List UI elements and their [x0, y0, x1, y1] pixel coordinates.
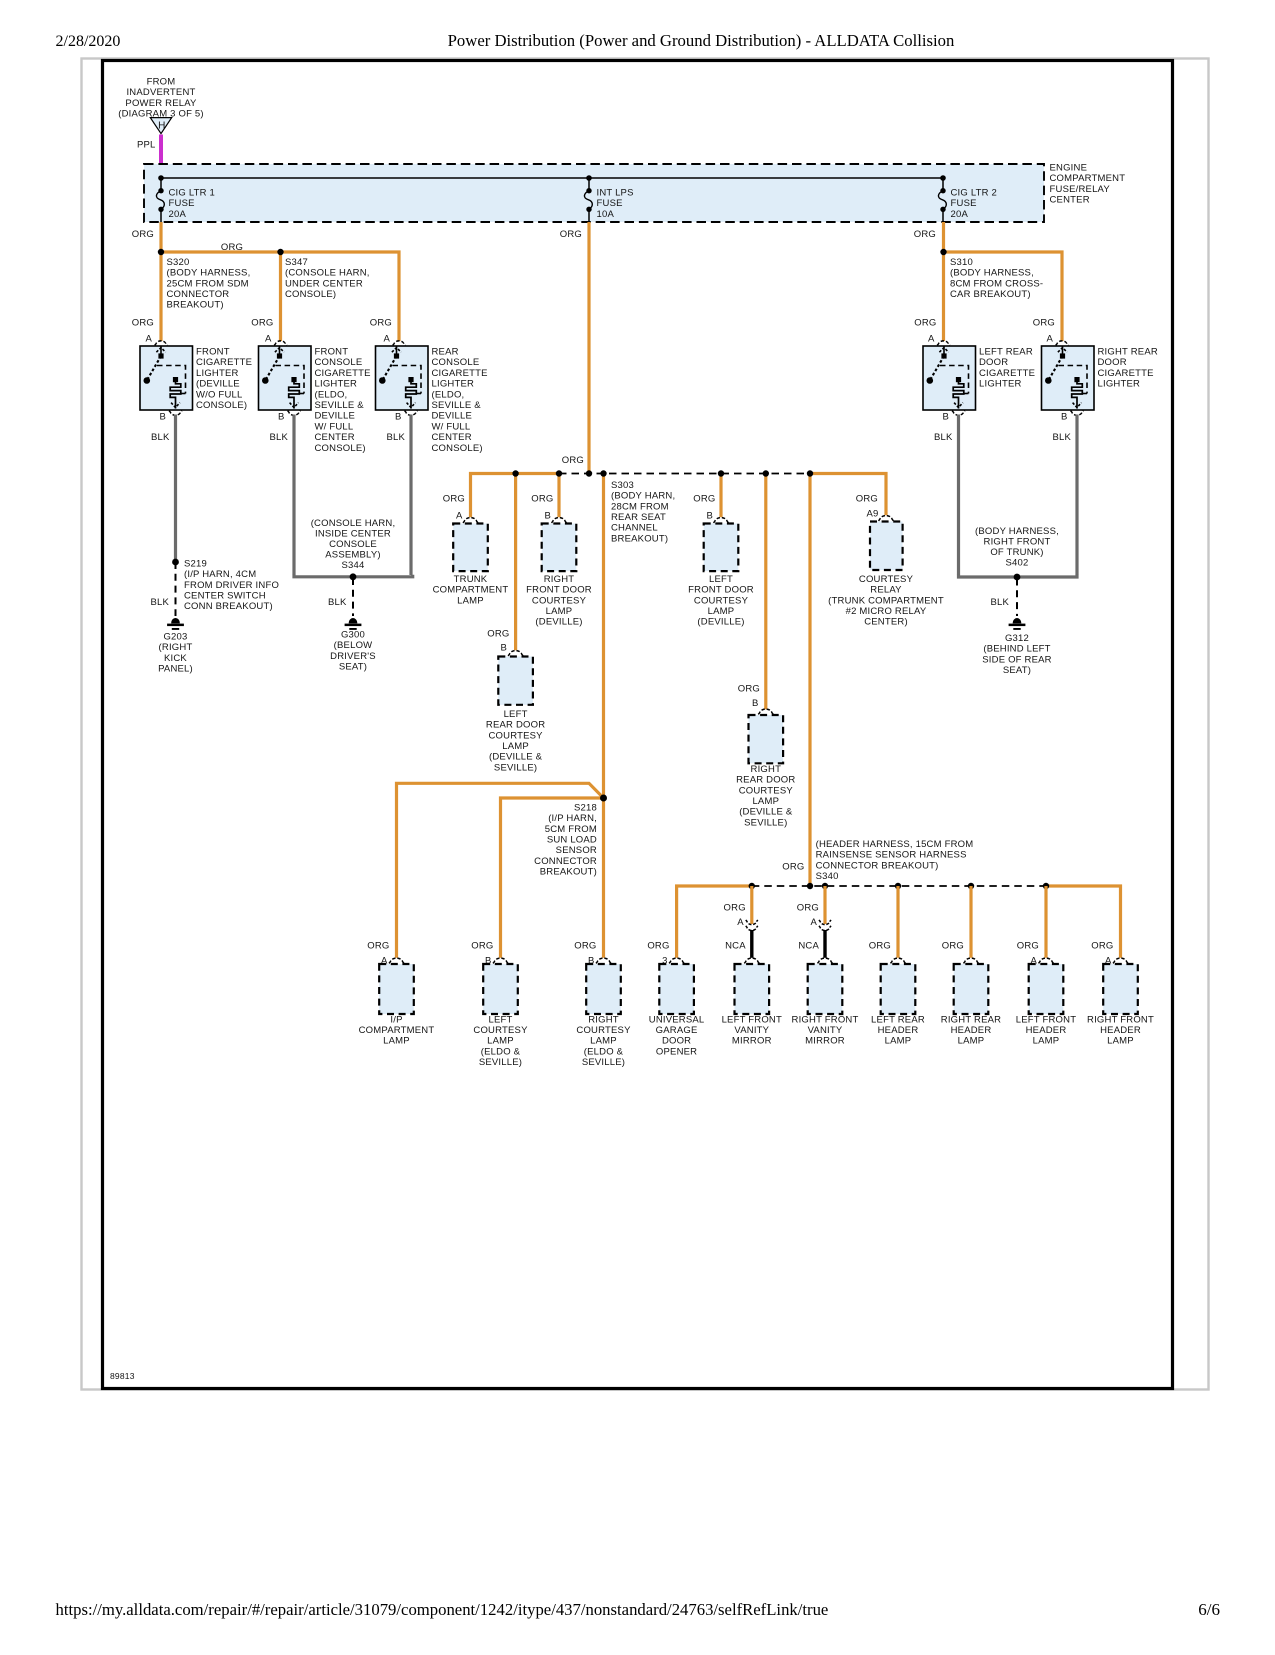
svg-text:(DEVILLE: (DEVILLE [196, 379, 240, 390]
fuse INT LPS FUSE 10A [588, 178, 590, 190]
svg-text:CENTER: CENTER [432, 432, 472, 443]
svg-text:PANEL): PANEL) [158, 663, 193, 674]
wire ORG drop to left front header lamp [1044, 886, 1047, 958]
svg-text:ENGINE: ENGINE [1050, 163, 1088, 174]
connector at pin A of front cigarette lighter [155, 341, 168, 346]
svg-text:FRONT DOOR: FRONT DOOR [526, 585, 592, 596]
svg-text:I/P: I/P [390, 1014, 402, 1025]
component rear console cigarette lighter U3 [376, 346, 429, 410]
svg-text:SIDE OF REAR: SIDE OF REAR [982, 654, 1051, 665]
svg-text:DEVILLE: DEVILLE [315, 411, 355, 422]
svg-text:(CONSOLE HARN,: (CONSOLE HARN, [311, 518, 396, 529]
svg-text:(BODY HARNESS,: (BODY HARNESS, [950, 268, 1034, 279]
svg-text:B: B [278, 411, 285, 422]
wire BLK from front cigarette lighter [174, 415, 177, 563]
svg-text:BLK: BLK [150, 597, 169, 608]
ground G203 [167, 618, 184, 630]
svg-text:FROM DRIVER INFO: FROM DRIVER INFO [184, 580, 279, 591]
svg-text:RIGHT: RIGHT [751, 764, 782, 775]
connector at pin B of rear console cigarette lighter [405, 411, 418, 416]
svg-text:LEFT REAR: LEFT REAR [871, 1014, 925, 1025]
svg-text:SEAT): SEAT) [339, 661, 367, 672]
svg-text:FUSE: FUSE [169, 198, 195, 209]
svg-text:LAMP: LAMP [383, 1036, 410, 1047]
svg-text:COURTESY: COURTESY [694, 595, 749, 606]
svg-text:ORG: ORG [1033, 318, 1055, 329]
svg-text:BLK: BLK [386, 432, 405, 443]
svg-text:(BODY HARN,: (BODY HARN, [611, 491, 675, 502]
svg-text:ORG: ORG [443, 494, 465, 505]
svg-text:28CM FROM: 28CM FROM [611, 501, 669, 512]
svg-text:ORG: ORG [724, 903, 746, 914]
svg-text:CONSOLE: CONSOLE [432, 357, 480, 368]
svg-text:ORG: ORG [471, 940, 493, 951]
svg-text:(ELDO &: (ELDO & [584, 1046, 624, 1057]
connector at right rear door courtesy lamp [758, 709, 773, 714]
connector at left front vanity mirror [744, 958, 759, 963]
svg-text:(HEADER HARNESS, 15CM FROM: (HEADER HARNESS, 15CM FROM [816, 839, 974, 850]
svg-text:VANITY: VANITY [734, 1025, 769, 1036]
svg-text:BLK: BLK [151, 432, 170, 443]
svg-text:SEAT): SEAT) [1003, 665, 1031, 676]
wire BLK from rear console cigarette lighter [409, 415, 412, 576]
svg-text:(I/P HARN, 4CM: (I/P HARN, 4CM [184, 569, 256, 580]
lamp right front door courtesy lamp [542, 524, 577, 572]
svg-text:(RIGHT: (RIGHT [159, 642, 193, 653]
svg-text:CIGARETTE: CIGARETTE [979, 368, 1035, 379]
connector at pin B of front cigarette lighter [169, 411, 182, 416]
wire BLK dashed to G300 [352, 578, 354, 616]
wire ORG drop to left front door courtesy lamp [719, 474, 722, 518]
wire ORG drop to S340 header bus [808, 474, 811, 887]
svg-text:FRONT DOOR: FRONT DOOR [688, 585, 754, 596]
lamp right rear door courtesy lamp [749, 715, 784, 763]
svg-text:HEADER: HEADER [878, 1025, 919, 1036]
splice S347 [277, 249, 283, 255]
svg-text:(TRUNK COMPARTMENT: (TRUNK COMPARTMENT [828, 595, 944, 606]
wire BLK from left rear door cigarette lighter [957, 415, 960, 576]
box left front header lamp [1029, 964, 1064, 1014]
box left rear header lamp [881, 964, 916, 1014]
svg-text:89813: 89813 [110, 1371, 135, 1381]
svg-text:ORG: ORG [869, 940, 891, 951]
svg-text:LEFT REAR: LEFT REAR [979, 347, 1033, 358]
wire NCA to left front vanity mirror [750, 930, 753, 958]
svg-text:RIGHT REAR: RIGHT REAR [941, 1014, 1001, 1025]
connector at pin A of rear console cigarette lighter [393, 341, 406, 346]
svg-text:DOOR: DOOR [979, 357, 1008, 368]
svg-text:CAR BREAKOUT): CAR BREAKOUT) [950, 289, 1031, 300]
svg-text:LIGHTER: LIGHTER [315, 379, 358, 390]
box universal garage door opener [659, 964, 694, 1014]
svg-text:CONNECTOR: CONNECTOR [167, 289, 230, 300]
svg-text:BLK: BLK [269, 432, 288, 443]
svg-text:HEADER: HEADER [1100, 1025, 1141, 1036]
svg-text:LAMP: LAMP [590, 1036, 617, 1047]
svg-text:KICK: KICK [164, 653, 187, 664]
svg-text:MIRROR: MIRROR [805, 1036, 845, 1047]
wire ORG S303 bus left segment [471, 474, 560, 518]
svg-text:(ELDO,: (ELDO, [432, 389, 465, 400]
svg-text:S310: S310 [950, 257, 973, 268]
svg-text:W/ FULL: W/ FULL [432, 421, 471, 432]
wire ORG drop to right front vanity mirror [823, 886, 826, 924]
svg-text:W/O FULL: W/O FULL [196, 389, 242, 400]
svg-text:A: A [1046, 333, 1053, 344]
svg-text:B: B [395, 411, 402, 422]
svg-text:GARAGE: GARAGE [656, 1025, 698, 1036]
svg-text:DRIVER'S: DRIVER'S [330, 651, 376, 662]
svg-text:UNIVERSAL: UNIVERSAL [649, 1014, 705, 1025]
svg-text:CIG LTR 1: CIG LTR 1 [169, 188, 216, 199]
svg-text:(BODY HARNESS,: (BODY HARNESS, [167, 268, 251, 279]
svg-text:LAMP: LAMP [1107, 1036, 1134, 1047]
svg-text:G312: G312 [1005, 633, 1029, 644]
svg-text:INSIDE CENTER: INSIDE CENTER [315, 529, 391, 540]
svg-text:(ELDO,: (ELDO, [315, 389, 348, 400]
svg-text:ORG: ORG [782, 862, 804, 873]
svg-text:CONSOLE): CONSOLE) [285, 289, 336, 300]
svg-text:FRONT: FRONT [196, 347, 230, 358]
svg-text:FROM: FROM [147, 77, 176, 88]
svg-text:FUSE: FUSE [951, 198, 977, 209]
svg-text:BLK: BLK [328, 597, 347, 608]
svg-text:CONSOLE): CONSOLE) [196, 400, 247, 411]
svg-text:SEVILLE &: SEVILLE & [432, 400, 482, 411]
svg-text:LAMP: LAMP [457, 595, 484, 606]
svg-text:S402: S402 [1006, 558, 1029, 569]
svg-text:ORG: ORG [738, 684, 760, 695]
svg-text:ORG: ORG [251, 318, 273, 329]
svg-text:S219: S219 [184, 559, 207, 570]
component right rear door cigarette lighter U5 [1042, 346, 1095, 410]
connector at trunk compartment lamp [463, 518, 478, 523]
svg-text:A: A [928, 333, 935, 344]
svg-text:LAMP: LAMP [708, 606, 735, 617]
svg-text:(CONSOLE HARN,: (CONSOLE HARN, [285, 268, 370, 279]
connector at pin A of right rear door cigarette lighter [1056, 341, 1069, 346]
in-line connector at right front vanity mirror [819, 920, 831, 925]
wire ORG from CIG LTR 1 fuse to front lighter [159, 222, 162, 341]
svg-text:G203: G203 [163, 632, 187, 643]
svg-text:MIRROR: MIRROR [732, 1036, 772, 1047]
box left front vanity mirror [735, 964, 770, 1014]
svg-text:Power Distribution (Power and: Power Distribution (Power and Ground Dis… [448, 31, 955, 50]
svg-text:ORG: ORG [487, 629, 509, 640]
wire BLK join for S344 [294, 575, 413, 577]
svg-text:CONN BREAKOUT): CONN BREAKOUT) [184, 601, 273, 612]
splice S320 [158, 249, 164, 255]
svg-text:W/ FULL: W/ FULL [315, 421, 354, 432]
svg-text:(I/P HARN,: (I/P HARN, [548, 813, 597, 824]
svg-text:20A: 20A [951, 209, 969, 220]
svg-text:RELAY: RELAY [870, 585, 902, 596]
svg-text:LAMP: LAMP [885, 1036, 912, 1047]
svg-text:LAMP: LAMP [487, 1036, 514, 1047]
svg-text:ORG: ORG [942, 940, 964, 951]
connector at pin A of left rear door cigarette lighter [937, 341, 950, 346]
lamp trunk compartment lamp [453, 524, 488, 572]
svg-text:CHANNEL: CHANNEL [611, 523, 658, 534]
internal feed bus wire [161, 177, 943, 179]
svg-text:COMPARTMENT: COMPARTMENT [359, 1025, 435, 1036]
svg-text:PPL: PPL [137, 140, 156, 151]
wire dashed S340 header harness [752, 885, 1046, 887]
svg-text:RIGHT: RIGHT [588, 1014, 619, 1025]
connector at universal garage door opener [669, 958, 684, 963]
svg-text:REAR DOOR: REAR DOOR [486, 720, 545, 731]
svg-text:COURTESY: COURTESY [576, 1025, 631, 1036]
svg-text:DOOR: DOOR [1098, 357, 1127, 368]
svg-text:S320: S320 [167, 257, 190, 268]
box right front header lamp [1103, 964, 1138, 1014]
svg-text:S347: S347 [285, 257, 308, 268]
svg-text:LAMP: LAMP [546, 606, 573, 617]
connector at right front door courtesy lamp [552, 518, 567, 523]
svg-text:BREAKOUT): BREAKOUT) [540, 866, 597, 877]
svg-text:COURTESY: COURTESY [532, 595, 587, 606]
connector at left front header lamp [1039, 958, 1054, 963]
svg-text:CIG LTR 2: CIG LTR 2 [951, 188, 998, 199]
svg-text:TRUNK: TRUNK [454, 574, 488, 585]
junction node at CIG LTR 1 fuse [158, 175, 164, 181]
svg-text:LAMP: LAMP [502, 741, 529, 752]
svg-text:A: A [737, 917, 744, 928]
svg-text:ORG: ORG [914, 318, 936, 329]
connector at pin B of left rear door cigarette lighter [952, 411, 965, 416]
wire BLK from right rear door cigarette lighter [1075, 415, 1078, 576]
svg-text:POWER RELAY: POWER RELAY [125, 98, 197, 109]
connector at right front header lamp [1113, 958, 1128, 963]
wire ORG S218 branch to left courtesy lamp [501, 798, 604, 958]
svg-text:ORG: ORG [367, 940, 389, 951]
svg-text:ORG: ORG [574, 940, 596, 951]
svg-text:OPENER: OPENER [656, 1046, 697, 1057]
box i/p compartment lamp [379, 964, 414, 1014]
fuse CIG LTR 1 FUSE 20A [160, 178, 162, 190]
svg-text:2/28/2020: 2/28/2020 [56, 33, 121, 50]
svg-text:BLK: BLK [934, 432, 953, 443]
engine compartment fuse/relay center box [144, 164, 1044, 222]
in-line connector at left front vanity mirror [746, 920, 758, 925]
svg-text:ORG: ORG [560, 229, 582, 240]
svg-text:CONNECTOR BREAKOUT): CONNECTOR BREAKOUT) [816, 860, 939, 871]
connector at left rear door courtesy lamp [508, 651, 523, 656]
connector at left front door courtesy lamp [714, 518, 729, 523]
svg-text:LEFT: LEFT [504, 709, 528, 720]
svg-text:CIGARETTE: CIGARETTE [196, 357, 252, 368]
ground G312 [1009, 618, 1026, 630]
svg-text:A: A [265, 333, 272, 344]
svg-text:ORG: ORG [914, 229, 936, 240]
svg-text:S340: S340 [816, 871, 839, 882]
svg-text:INADVERTENT: INADVERTENT [126, 87, 195, 98]
svg-text:A: A [456, 510, 463, 521]
svg-text:8CM FROM CROSS-: 8CM FROM CROSS- [950, 278, 1043, 289]
svg-text:LAMP: LAMP [958, 1036, 985, 1047]
svg-text:RIGHT FRONT: RIGHT FRONT [984, 537, 1051, 548]
wire ORG drop to left rear header lamp [896, 886, 899, 958]
wire ORG drop to left rear door courtesy lamp [514, 474, 517, 651]
connector at pin A of front console cigarette lighter [274, 341, 287, 346]
svg-text:CENTER: CENTER [315, 432, 355, 443]
wire ORG drop to left front vanity mirror [750, 886, 753, 924]
svg-text:RIGHT FRONT: RIGHT FRONT [1087, 1014, 1154, 1025]
svg-text:CIGARETTE: CIGARETTE [432, 368, 488, 379]
svg-text:RAINSENSE SENSOR HARNESS: RAINSENSE SENSOR HARNESS [816, 850, 967, 861]
svg-text:ORG: ORG [132, 229, 154, 240]
svg-text:RIGHT FRONT: RIGHT FRONT [792, 1014, 859, 1025]
svg-text:G300: G300 [341, 630, 365, 641]
svg-text:COMPARTMENT: COMPARTMENT [1050, 173, 1126, 184]
svg-text:REAR SEAT: REAR SEAT [611, 512, 666, 523]
svg-text:LIGHTER: LIGHTER [432, 379, 475, 390]
wire ORG drop to right rear door courtesy lamp [764, 474, 767, 710]
svg-text:NCA: NCA [725, 940, 746, 951]
svg-text:ORG: ORG [856, 494, 878, 505]
svg-text:B: B [706, 510, 713, 521]
svg-text:RIGHT REAR: RIGHT REAR [1098, 347, 1158, 358]
svg-text:ORG: ORG [797, 903, 819, 914]
svg-text:A: A [810, 917, 817, 928]
svg-text:ASSEMBLY): ASSEMBLY) [325, 550, 380, 561]
svg-text:(DEVILLE): (DEVILLE) [697, 617, 744, 628]
svg-text:10A: 10A [597, 209, 615, 220]
box right courtesy lamp [586, 964, 621, 1014]
off-page connector triangle H [150, 118, 171, 134]
svg-text:(BEHIND LEFT: (BEHIND LEFT [983, 644, 1050, 655]
svg-text:S218: S218 [574, 803, 597, 814]
wire ORG S303 bus right segment to courtesy relay [810, 474, 886, 516]
wire BLK dashed to G203 [175, 562, 177, 616]
wire BLK join for S402 [959, 575, 1078, 577]
ground G300 [345, 618, 362, 630]
svg-text:CONSOLE: CONSOLE [315, 357, 363, 368]
svg-text:B: B [942, 411, 949, 422]
wire BLK from front console cigarette lighter [292, 415, 295, 576]
svg-text:ORG: ORG [531, 494, 553, 505]
svg-text:LAMP: LAMP [1033, 1036, 1060, 1047]
svg-text:CENTER SWITCH: CENTER SWITCH [184, 590, 266, 601]
svg-text:REAR: REAR [432, 347, 459, 358]
svg-text:LIGHTER: LIGHTER [979, 379, 1022, 390]
svg-text:CONSOLE: CONSOLE [329, 539, 377, 550]
svg-text:(BODY HARNESS,: (BODY HARNESS, [975, 526, 1059, 537]
svg-text:FUSE/RELAY: FUSE/RELAY [1050, 184, 1111, 195]
svg-text:B: B [500, 643, 507, 654]
wire ORG branch to front console lighter [279, 252, 282, 341]
wire ORG drop to right front door courtesy lamp [557, 474, 560, 518]
wire ORG from INT LPS fuse down to S303 bus [587, 222, 590, 474]
svg-text:UNDER CENTER: UNDER CENTER [285, 278, 363, 289]
svg-text:COURTESY: COURTESY [739, 785, 794, 796]
svg-text:ORG: ORG [562, 455, 584, 466]
relay courtesy relay [870, 522, 903, 571]
svg-text:HEADER: HEADER [1026, 1025, 1067, 1036]
connector at right courtesy lamp [596, 958, 611, 963]
connector at i/p compartment lamp [389, 958, 404, 963]
connector at right front vanity mirror [818, 958, 833, 963]
svg-text:VANITY: VANITY [808, 1025, 843, 1036]
svg-text:ORG: ORG [647, 940, 669, 951]
svg-text:CENTER: CENTER [1050, 194, 1090, 205]
svg-text:B: B [159, 411, 166, 422]
connector at courtesy relay [879, 516, 894, 521]
svg-text:SEVILLE): SEVILLE) [582, 1057, 625, 1068]
connector at left courtesy lamp [493, 958, 508, 963]
fuse CIG LTR 2 FUSE 20A [942, 178, 944, 190]
svg-text:(DEVILLE &: (DEVILLE & [739, 807, 793, 818]
wire ORG branch S310 to right rear door lighter [944, 252, 1063, 341]
svg-text:5CM FROM: 5CM FROM [545, 824, 597, 835]
component front cigarette lighter U1 [140, 346, 193, 410]
svg-text:H: H [158, 121, 165, 132]
splice S218 [600, 795, 607, 802]
connector at left rear header lamp [891, 958, 906, 963]
svg-text:BREAKOUT): BREAKOUT) [611, 533, 668, 544]
svg-text:ORG: ORG [132, 318, 154, 329]
svg-text:REAR DOOR: REAR DOOR [736, 775, 795, 786]
svg-text:S303: S303 [611, 480, 634, 491]
svg-text:DOOR: DOOR [662, 1036, 691, 1047]
lamp left rear door courtesy lamp [498, 657, 533, 705]
wire ORG from CIG LTR 2 fuse to left rear door lighter [942, 222, 945, 341]
svg-text:6/6: 6/6 [1198, 1600, 1220, 1619]
wire ORG main drop to S218 and right courtesy lamp [602, 474, 605, 958]
svg-text:ORG: ORG [221, 242, 243, 253]
svg-text:A9: A9 [866, 509, 878, 520]
splice S219 [172, 559, 179, 566]
svg-text:LEFT: LEFT [488, 1014, 512, 1025]
wire into fuse box [160, 166, 162, 178]
svg-text:SENSOR: SENSOR [556, 845, 597, 856]
svg-text:CONSOLE): CONSOLE) [315, 443, 366, 454]
svg-text:A: A [145, 333, 152, 344]
svg-text:LEFT: LEFT [709, 574, 733, 585]
svg-text:(DEVILLE &: (DEVILLE & [489, 752, 543, 763]
svg-text:BREAKOUT): BREAKOUT) [167, 300, 224, 311]
box right rear header lamp [954, 964, 989, 1014]
svg-text:FRONT: FRONT [315, 347, 349, 358]
svg-text:ORG: ORG [693, 494, 715, 505]
svg-text:SUN LOAD: SUN LOAD [547, 834, 597, 845]
svg-text:SEVILLE): SEVILLE) [494, 762, 537, 773]
component left rear door cigarette lighter U4 [923, 346, 976, 410]
svg-text:CONSOLE): CONSOLE) [432, 443, 483, 454]
wire BLK dashed to G312 [1016, 579, 1018, 617]
wire PPL from relay [159, 135, 163, 167]
svg-text:LIGHTER: LIGHTER [1098, 379, 1141, 390]
svg-text:ORG: ORG [370, 318, 392, 329]
connector at pin B of right rear door cigarette lighter [1071, 411, 1084, 416]
svg-text:OF TRUNK): OF TRUNK) [990, 547, 1043, 558]
wire ORG S218 branch to I/P compartment lamp [397, 783, 604, 958]
svg-text:SEVILLE): SEVILLE) [744, 817, 787, 828]
junction node at INT LPS fuse [586, 175, 592, 181]
svg-text:HEADER: HEADER [951, 1025, 992, 1036]
lamp left front door courtesy lamp [704, 524, 739, 572]
component front console cigarette lighter U2 [259, 346, 312, 410]
svg-text:CIGARETTE: CIGARETTE [315, 368, 371, 379]
svg-text:LEFT FRONT: LEFT FRONT [722, 1014, 782, 1025]
svg-text:20A: 20A [169, 209, 187, 220]
splice S344 [350, 573, 357, 580]
svg-text:BLK: BLK [1052, 432, 1071, 443]
connector at pin B of front console cigarette lighter [288, 411, 301, 416]
svg-text:RIGHT: RIGHT [544, 574, 575, 585]
wire ORG branch S320 bus to rear console lighter [161, 252, 399, 341]
splice S310 [940, 249, 946, 255]
